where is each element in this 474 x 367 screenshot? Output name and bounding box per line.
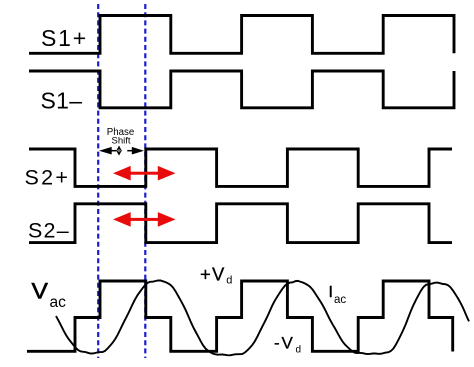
svg-text:ac: ac [50,294,67,311]
red shift arrow lower (S2-) [113,212,176,227]
svg-text:S2+: S2+ [25,165,71,189]
waveform Vac (3-level bridge output) [27,281,453,352]
dashed reference line right (phase ref 2) [144,4,146,358]
svg-text:-V: -V [274,333,295,352]
waveform S2- [29,204,452,243]
svg-text:S1+: S1+ [41,25,88,51]
phi symbol [118,146,120,155]
svg-text:I: I [329,284,333,301]
svg-text:Shift: Shift [111,136,130,147]
svg-text:+V: +V [200,263,226,284]
red shift arrow upper (S2+) [113,166,176,181]
phase-shift arrow right [127,150,132,152]
phase-shift arrow left [112,150,117,152]
svg-text:d: d [296,344,302,355]
svg-text:S2–: S2– [28,218,70,242]
svg-text:V: V [32,278,49,303]
svg-text:ac: ac [334,294,346,306]
waveform S1+ [29,16,454,54]
waveform S2+ [29,149,452,186]
waveform S1- [29,71,454,108]
dashed reference line left (phase ref 1) [97,4,99,358]
sine current Iac [56,280,469,355]
svg-text:S1–: S1– [41,87,83,113]
svg-text:d: d [226,275,232,287]
